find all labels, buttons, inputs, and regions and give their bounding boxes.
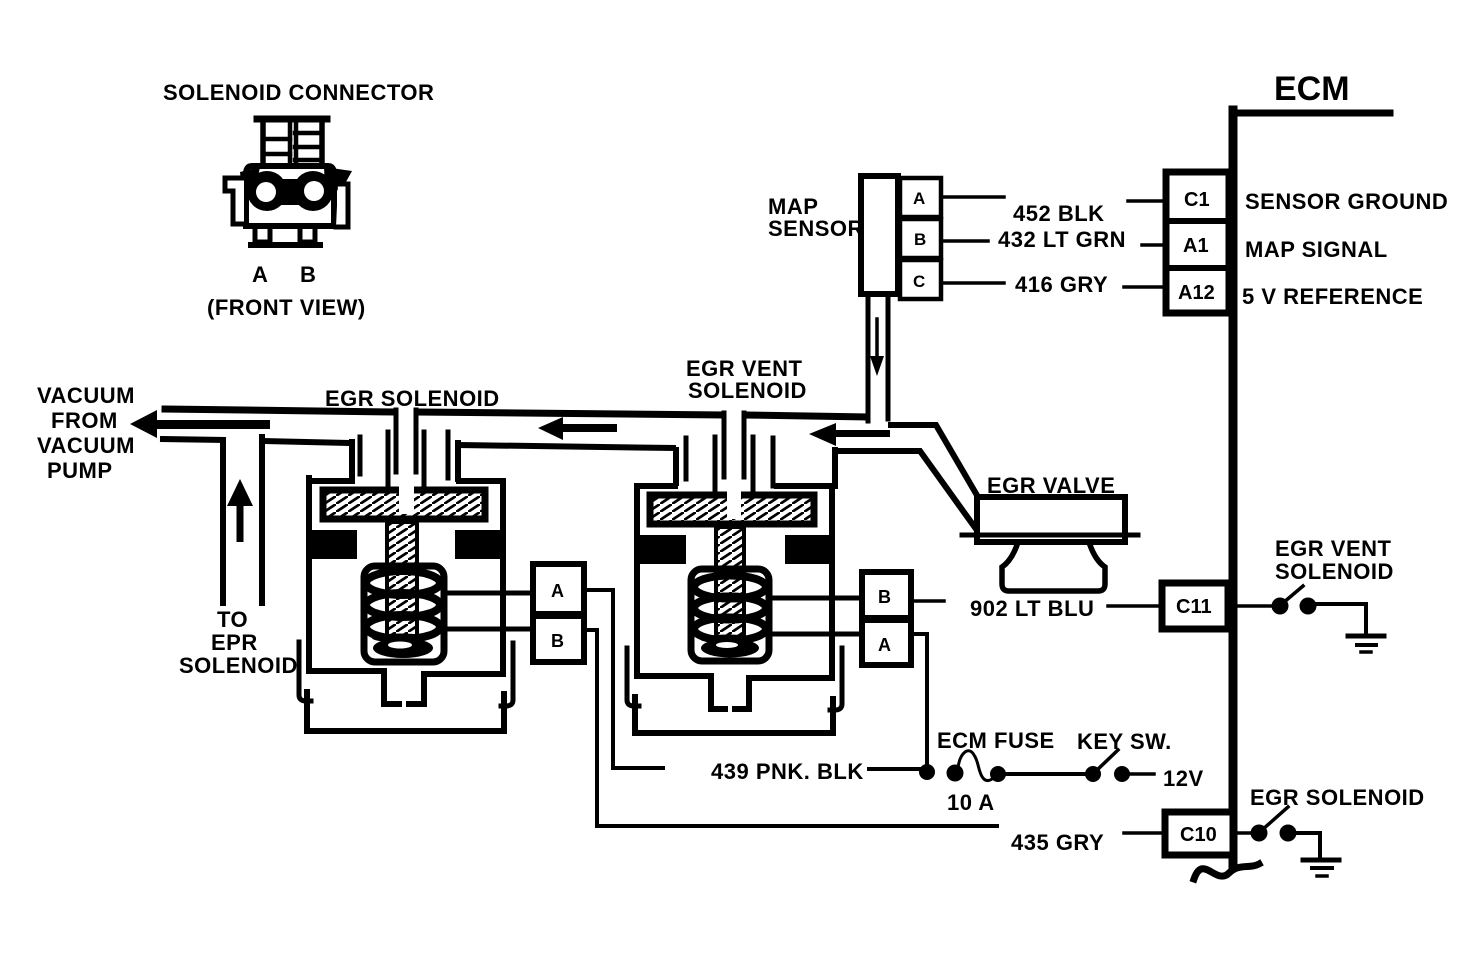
wire C10 to switch [1237, 831, 1251, 835]
label VACUUM FROM VACUUM PUMP [37, 383, 135, 483]
wire 416 GRY [941, 281, 1004, 285]
wire housing to pin B [769, 596, 862, 601]
center pipe outer walls [715, 437, 753, 494]
svg-text:FROM: FROM [51, 408, 118, 433]
svg-text:C: C [913, 272, 925, 291]
EPR tee tube walls [220, 440, 226, 603]
svg-text:EGR SOLENOID: EGR SOLENOID [325, 386, 500, 411]
svg-text:EGR VENT: EGR VENT [1275, 536, 1392, 561]
ECM pin box C10 [1165, 812, 1233, 855]
wire from pin B of EGR solenoid down [584, 630, 597, 826]
right ear [830, 648, 842, 710]
bottom neck [384, 671, 424, 704]
spring housing [691, 569, 769, 661]
svg-text:A: A [252, 262, 268, 287]
svg-text:B: B [878, 587, 891, 607]
EPR up arrow [227, 479, 253, 506]
wire switch to ground [1296, 833, 1320, 858]
EGR solenoid assembly [299, 410, 513, 731]
body outline [309, 478, 352, 484]
svg-text:(FRONT VIEW): (FRONT VIEW) [207, 295, 366, 320]
svg-text:C1: C1 [1184, 189, 1210, 211]
svg-text:A: A [878, 635, 891, 655]
armature stem (hatched) [716, 527, 744, 643]
svg-text:EPR: EPR [211, 630, 258, 655]
EGR valve body [977, 497, 1125, 542]
EGR vent solenoid assembly [627, 413, 842, 733]
svg-text:C10: C10 [1180, 824, 1217, 846]
left ear [627, 648, 639, 706]
EGR solenoid pin box B [533, 616, 584, 662]
svg-text:TO: TO [217, 607, 248, 632]
svg-text:A: A [551, 581, 564, 601]
EGR solenoid switch blade [1262, 807, 1288, 830]
vent solenoid switch blade [1283, 586, 1303, 603]
svg-text:416 GRY: 416 GRY [1015, 272, 1108, 297]
left coil block [637, 535, 686, 564]
svg-text:B: B [914, 230, 926, 249]
ground symbol (EGR solenoid) [1303, 858, 1339, 863]
junction dot [947, 765, 964, 782]
ECM top edge line [1233, 110, 1390, 117]
ECM connector block C1 A1 A12 [1166, 172, 1229, 313]
svg-text:SOLENOID: SOLENOID [688, 378, 807, 403]
key switch dot [1085, 766, 1101, 782]
wire from pin A of vent solenoid down [911, 634, 927, 766]
vacuum tube top line [165, 409, 393, 412]
center pipe inner walls [396, 410, 416, 472]
wire 439 PNK BLK [613, 766, 663, 770]
spring housing [364, 566, 444, 662]
body bottom [309, 668, 384, 674]
svg-text:SOLENOID: SOLENOID [179, 653, 298, 678]
svg-text:MAP SIGNAL: MAP SIGNAL [1245, 237, 1388, 262]
armature stem (hatched) [387, 522, 417, 644]
MAP pin B box [900, 219, 941, 258]
EGR solenoid switch dots [1251, 825, 1268, 842]
tube bend at MAP junction upper [891, 425, 978, 497]
center pipe inner walls [724, 413, 744, 477]
wire switch to ground [1316, 604, 1366, 633]
body outline [637, 483, 675, 489]
svg-text:A12: A12 [1178, 282, 1215, 304]
svg-text:452 BLK: 452 BLK [1013, 201, 1105, 226]
svg-text:902 LT BLU: 902 LT BLU [970, 596, 1094, 621]
svg-text:PUMP: PUMP [47, 458, 113, 483]
vacuum tube bottom line [163, 439, 223, 440]
wire housing to pin A [769, 632, 862, 637]
EGR vent solenoid pin box A [862, 620, 911, 665]
armature plate (hatched) [323, 490, 485, 519]
svg-text:10 A: 10 A [947, 790, 995, 815]
svg-text:A1: A1 [1183, 235, 1209, 257]
spring coils [366, 571, 440, 595]
right coil block [455, 530, 505, 559]
svg-text:KEY SW.: KEY SW. [1077, 729, 1172, 754]
wire 452 BLK [941, 195, 1004, 199]
vacuum flow arrow 1 [130, 410, 157, 438]
EGR valve flange line [962, 533, 1138, 538]
MAP sensor body [768, 176, 941, 299]
key switch blade [1096, 750, 1118, 771]
connector bottom feet [255, 226, 270, 242]
svg-text:VACUUM: VACUUM [37, 433, 135, 458]
connector right tab [336, 184, 348, 227]
bottom cup [307, 692, 504, 731]
svg-text:SENSOR: SENSOR [768, 216, 864, 241]
armature plate (hatched) [650, 495, 814, 524]
right port wall [771, 438, 776, 486]
right coil block [785, 535, 835, 564]
svg-text:VACUUM: VACUUM [37, 383, 135, 408]
center pipe outer walls [388, 432, 424, 489]
body bottom [637, 673, 711, 679]
ECM break squiggle [1194, 864, 1259, 879]
wire housing to pin B [444, 627, 533, 632]
label TO EPR SOLENOID [179, 607, 298, 678]
wire C11 to switch [1237, 604, 1272, 608]
ECM main vertical line [1229, 110, 1238, 866]
svg-text:ECM: ECM [1274, 70, 1350, 108]
svg-text:EGR SOLENOID: EGR SOLENOID [1250, 785, 1425, 810]
svg-text:12V: 12V [1163, 766, 1204, 791]
EGR solenoid pin box A [533, 564, 584, 614]
svg-text:SENSOR GROUND: SENSOR GROUND [1245, 189, 1448, 214]
svg-text:B: B [551, 631, 564, 651]
connector terminal goggles [240, 167, 352, 211]
key switch dot [1114, 766, 1130, 782]
MAP tube down arrow [875, 319, 879, 356]
vacuum flow arrow 2 [538, 417, 563, 440]
label EGR VENT SOLENOID (top) [686, 356, 807, 403]
wire fuse to key switch [1006, 772, 1086, 776]
ground symbol (vent solenoid) [1348, 634, 1384, 639]
junction dot [919, 764, 935, 780]
left ear [299, 642, 311, 701]
left port walls [673, 450, 679, 483]
svg-text:C11: C11 [1176, 596, 1212, 618]
left port walls [349, 442, 355, 478]
MAP pin A box [900, 178, 941, 217]
fuse element [958, 751, 996, 781]
vent solenoid switch contact dots [1272, 598, 1289, 615]
solenoid connector J1 (front view) [225, 119, 352, 245]
EGR vent solenoid pin box B [862, 572, 911, 618]
svg-text:SOLENOID CONNECTOR: SOLENOID CONNECTOR [163, 80, 434, 105]
junction dot [990, 766, 1006, 782]
svg-text:ECM FUSE: ECM FUSE [937, 728, 1055, 753]
wire 432 LT GRN [941, 239, 988, 243]
connector left tab [225, 178, 244, 224]
tube bend lower to EGR valve [837, 451, 976, 529]
wire from pin A of EGR solenoid down [584, 590, 613, 768]
wire to 12V [1131, 772, 1154, 776]
MAP sensor vacuum tube walls [866, 294, 871, 421]
right ear [501, 643, 513, 706]
spring coils [694, 576, 766, 599]
vacuum flow arrow 3 [809, 423, 836, 446]
EGR valve base [1002, 545, 1105, 591]
svg-text:432 LT GRN: 432 LT GRN [998, 227, 1126, 252]
bottom neck [711, 676, 749, 709]
MAP pin C box [900, 260, 941, 299]
wire 435 GRY [597, 824, 997, 828]
wire housing to pin A [444, 591, 533, 596]
ECM pin box C11 [1162, 583, 1228, 629]
svg-text:439 PNK. BLK: 439 PNK. BLK [711, 759, 864, 784]
svg-text:A: A [913, 189, 925, 208]
connector body [246, 166, 334, 226]
svg-text:SOLENOID: SOLENOID [1275, 559, 1394, 584]
wire 902 LT BLU [911, 599, 944, 603]
svg-text:B: B [300, 262, 316, 287]
svg-text:5 V REFERENCE: 5 V REFERENCE [1242, 284, 1423, 309]
connector lock tab ladder [257, 119, 327, 166]
svg-text:435 GRY: 435 GRY [1011, 830, 1104, 855]
right port walls [446, 432, 451, 478]
left coil block [307, 530, 357, 559]
bottom cup [635, 697, 833, 733]
label EGR VENT SOLENOID (right) [1275, 536, 1394, 584]
